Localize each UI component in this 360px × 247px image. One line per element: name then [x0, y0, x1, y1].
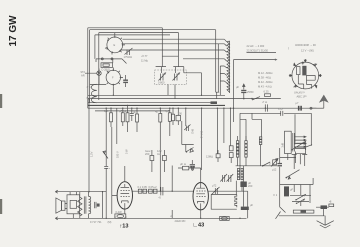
svg-text:M.42 −600Ω: M.42 −600Ω — [258, 80, 272, 84]
svg-text:200: 200 — [145, 152, 150, 156]
dark comp left — [284, 186, 289, 196]
coil stack D — [237, 169, 239, 180]
IF can feeds — [236, 165, 242, 195]
resistor pair 1 — [138, 189, 142, 193]
cap on frame — [281, 111, 283, 116]
svg-text:0,4W: 0,4W — [116, 210, 123, 214]
bottom right comps — [321, 205, 328, 209]
arrow in mains box — [296, 142, 303, 144]
svg-text:5 W: 5 W — [124, 149, 128, 154]
bus line 1 — [88, 94, 225, 96]
resistor drop 5 — [159, 114, 162, 123]
frame verticals — [240, 113, 261, 166]
svg-text:↑13: ↑13 — [120, 224, 129, 230]
resistor 625 — [265, 94, 271, 97]
antenna arrow — [319, 95, 329, 103]
svg-text:100: 100 — [178, 112, 183, 116]
wire under tubes — [90, 84, 107, 86]
resistor drop 4 — [136, 114, 139, 122]
wire IF left column — [243, 166, 245, 207]
switch on mid bus — [252, 97, 260, 100]
CF7 electrodes — [196, 188, 205, 203]
tube V1 pins — [105, 33, 125, 55]
svg-text:4μ: 4μ — [155, 110, 158, 114]
wire tap line C — [120, 49, 224, 51]
svg-text:μF: μF — [250, 203, 253, 207]
pot with arrow — [273, 160, 277, 165]
left long vertical 1 — [88, 99, 90, 191]
svg-text:μF 4Ω: μF 4Ω — [119, 109, 126, 113]
comp above wire — [293, 210, 314, 213]
socket internal wiring — [298, 75, 315, 89]
svg-text:175/2Ω: 175/2Ω — [124, 55, 132, 59]
coil stack A — [236, 141, 238, 157]
wire to fuse — [115, 209, 126, 218]
tube CF7 envelope — [193, 183, 208, 210]
wire trimmer feeds — [156, 52, 202, 99]
svg-text:9 717 731: 9 717 731 — [90, 220, 102, 224]
wire jogs right inside box — [216, 44, 220, 99]
cathode cap with arrow — [243, 84, 245, 99]
coil stack B — [245, 141, 247, 157]
svg-text:4000F/4008 → 90: 4000F/4008 → 90 — [295, 43, 316, 47]
svg-text:8M ±1: 8M ±1 — [200, 131, 204, 139]
cap stack dark — [190, 164, 195, 165]
svg-text:11 Mμ: 11 Mμ — [141, 59, 149, 63]
wire audio to corner — [237, 191, 248, 218]
switch left — [103, 151, 108, 159]
trimmer a — [220, 174, 227, 182]
dashed box — [155, 70, 187, 85]
svg-text:3dB: 3dB — [281, 143, 285, 148]
ground chevron — [317, 221, 334, 226]
svg-text:•NED RD: •NED RD — [175, 219, 186, 223]
svg-text:0 800: 0 800 — [158, 81, 165, 85]
coil left S — [91, 84, 96, 103]
svg-text:4μF: 4μF — [165, 109, 170, 113]
resistor drop 6 — [168, 113, 171, 122]
resistor D28 — [101, 63, 113, 68]
trimmer mid — [184, 125, 190, 132]
svg-text:•7 Ω: •7 Ω — [262, 100, 267, 104]
relay lever — [291, 141, 306, 150]
node wire above D28 — [96, 59, 127, 64]
cap 72 — [212, 187, 220, 195]
bus line 2 — [88, 98, 281, 100]
resistor dark mid — [240, 182, 246, 188]
junction dots on bus — [88, 95, 266, 219]
wire inner box left — [98, 33, 100, 100]
trimmer cap mid — [125, 48, 133, 55]
wire h184 — [280, 184, 313, 186]
bus line 5 long — [88, 107, 317, 109]
svg-text:22 ΩF → 4 000: 22 ΩF → 4 000 — [247, 44, 265, 48]
field coil box — [67, 195, 80, 214]
wire bottom long with connector tip — [55, 217, 246, 220]
wire outer box top — [88, 28, 163, 52]
drop lines right — [186, 108, 231, 170]
dark comp lower right — [241, 207, 249, 210]
contact cluster — [290, 194, 311, 203]
resistor drop 2 — [121, 113, 124, 122]
svg-text:μ12: μ12 — [272, 168, 277, 172]
capacitor on bus right — [298, 106, 300, 111]
svg-text:D 28(1): D 28(1) — [102, 68, 111, 72]
svg-text:E: E — [114, 43, 116, 47]
tube V2 circle — [106, 70, 120, 84]
svg-text:200: 200 — [248, 184, 253, 188]
rectifier socket circle — [292, 62, 319, 89]
svg-text:∟43: ∟43 — [193, 222, 205, 228]
wire row — [133, 190, 237, 192]
wire outer box left — [87, 28, 89, 108]
svg-text:μF Ω: μF Ω — [180, 162, 186, 166]
wire frame top — [240, 113, 311, 145]
left long vertical 2 — [105, 108, 107, 166]
wire second box top — [90, 30, 216, 92]
svg-text:μF: μF — [290, 188, 293, 192]
resistor drop 1 — [110, 113, 113, 122]
IF can box — [211, 195, 237, 210]
node verticals — [171, 166, 173, 219]
svg-text:UAU/UY²: UAU/UY² — [294, 91, 305, 95]
cap vertical — [161, 187, 163, 195]
resistor pair drop — [172, 114, 175, 121]
wires speaker to field box — [65, 203, 67, 208]
zigzag resistor — [78, 197, 82, 216]
lamp circle with X — [97, 71, 101, 75]
cap drop — [130, 108, 134, 121]
resistor dark on bus3 — [211, 101, 218, 104]
transistor like — [187, 148, 194, 153]
wire h157 — [280, 157, 296, 159]
cap on feed — [277, 163, 282, 164]
svg-text:4 T2: 4 T2 — [87, 85, 93, 89]
switch on bottom wire — [263, 162, 271, 166]
wire gang line — [95, 34, 170, 36]
wire second box left — [89, 30, 91, 103]
wire right edge — [102, 192, 104, 219]
svg-text:}: } — [288, 46, 289, 50]
tube CL4 envelope — [117, 182, 132, 209]
T verticals — [292, 155, 308, 170]
svg-text:9T2: 9T2 — [81, 70, 86, 74]
resistor pair 2 — [149, 189, 153, 193]
svg-text:(M): (M) — [108, 220, 112, 224]
wire tube V2 cathode drop — [112, 87, 114, 96]
tube V2 pins — [107, 68, 123, 87]
wire tap line A — [123, 38, 225, 40]
trimmer in box 1 — [159, 73, 167, 81]
wire inner box top — [99, 33, 179, 57]
relay body — [285, 131, 292, 153]
cap dark right of tube V2 — [123, 80, 128, 81]
wire left feed column — [280, 148, 286, 213]
wire from coil top — [234, 59, 277, 61]
svg-text:M.38 −40Ω: M.38 −40Ω — [258, 76, 271, 80]
svg-text:μ72: μ72 — [212, 184, 217, 188]
svg-text:8H2: 8H2 — [191, 129, 195, 134]
cap and dark comp — [95, 202, 96, 208]
svg-text:22,0(31)(71 31)/50: 22,0(31)(71 31)/50 — [247, 49, 269, 53]
svg-text:1,5V: 1,5V — [90, 151, 94, 157]
wire grid feed — [111, 127, 113, 195]
svg-text:AR: AR — [81, 74, 85, 78]
wire L mid — [182, 121, 194, 152]
svg-text:0,05+2: 0,05+2 — [149, 185, 158, 189]
fuse comp on wire — [220, 216, 230, 220]
edge speck upper — [0, 94, 2, 108]
transformer core — [84, 196, 86, 213]
tick above circle — [301, 62, 304, 65]
relay contacts — [294, 136, 306, 148]
tube V1 circle — [107, 37, 123, 53]
osc coil scalloped column — [229, 41, 231, 93]
svg-text:M.12 −600Ω: M.12 −600Ω — [258, 71, 272, 75]
svg-text:√2.77: √2.77 — [141, 54, 148, 58]
wire top with connector tip — [55, 190, 106, 193]
svg-text:185 V: 185 V — [116, 151, 120, 158]
svg-text:0,1 0,05: 0,1 0,05 — [138, 185, 148, 189]
anode comp above — [183, 166, 189, 170]
svg-text:•7Ω: •7Ω — [278, 107, 282, 111]
svg-text:M.43 −4,6Ω: M.43 −4,6Ω — [258, 85, 272, 89]
trimmer in box 2 — [173, 73, 181, 81]
socket rim arrows — [304, 59, 306, 62]
grid stub left — [112, 195, 117, 214]
small box below mains — [295, 148, 306, 164]
title 17 GW — [8, 15, 19, 47]
socket pin rect 2 — [302, 66, 306, 76]
svg-text:12 V ∼(90): 12 V ∼(90) — [301, 49, 314, 53]
relay drops — [288, 141, 306, 163]
speaker magnet box — [62, 201, 66, 210]
wire h215 — [279, 215, 325, 217]
coil tap hooks — [220, 39, 227, 95]
svg-text:17 GW: 17 GW — [8, 15, 19, 47]
capacitor 47 on bus — [265, 104, 267, 111]
fuse box — [115, 214, 126, 218]
svg-text:6 25: 6 25 — [264, 90, 270, 94]
node circle on bus — [310, 107, 312, 109]
bus line 3 — [88, 102, 217, 104]
lever switch lower — [286, 170, 299, 178]
transformer winding — [89, 196, 91, 213]
svg-text:12MΩ: 12MΩ — [206, 155, 213, 159]
wire tap line B — [122, 43, 225, 45]
svg-text:F 1: F 1 — [274, 193, 278, 197]
CL4 electrodes — [121, 187, 130, 203]
svg-text:ABC 1P³: ABC 1P³ — [297, 95, 307, 99]
wire tap line D — [183, 58, 224, 60]
bus line 4 — [88, 104, 225, 106]
edge speck lower — [0, 199, 2, 214]
socket pin rect 1 — [297, 67, 300, 75]
svg-text:μF: μF — [133, 110, 136, 114]
wire gang left drop — [94, 35, 96, 59]
bottom wire — [236, 165, 277, 167]
resistor drop 3 — [126, 113, 129, 122]
coil stack E — [241, 169, 243, 180]
svg-text:μF: μF — [236, 85, 239, 89]
svg-text:•: • — [109, 168, 110, 171]
wire under box — [95, 110, 170, 112]
coil stack C — [259, 137, 261, 145]
trimmer b — [227, 174, 234, 182]
svg-text:4Ω: 4Ω — [157, 152, 160, 156]
resistor 12M — [216, 154, 220, 158]
speaker cone — [56, 198, 62, 213]
resistor col pair — [229, 146, 233, 151]
mains box — [295, 114, 312, 147]
svg-text:25/50: 25/50 — [247, 90, 254, 94]
